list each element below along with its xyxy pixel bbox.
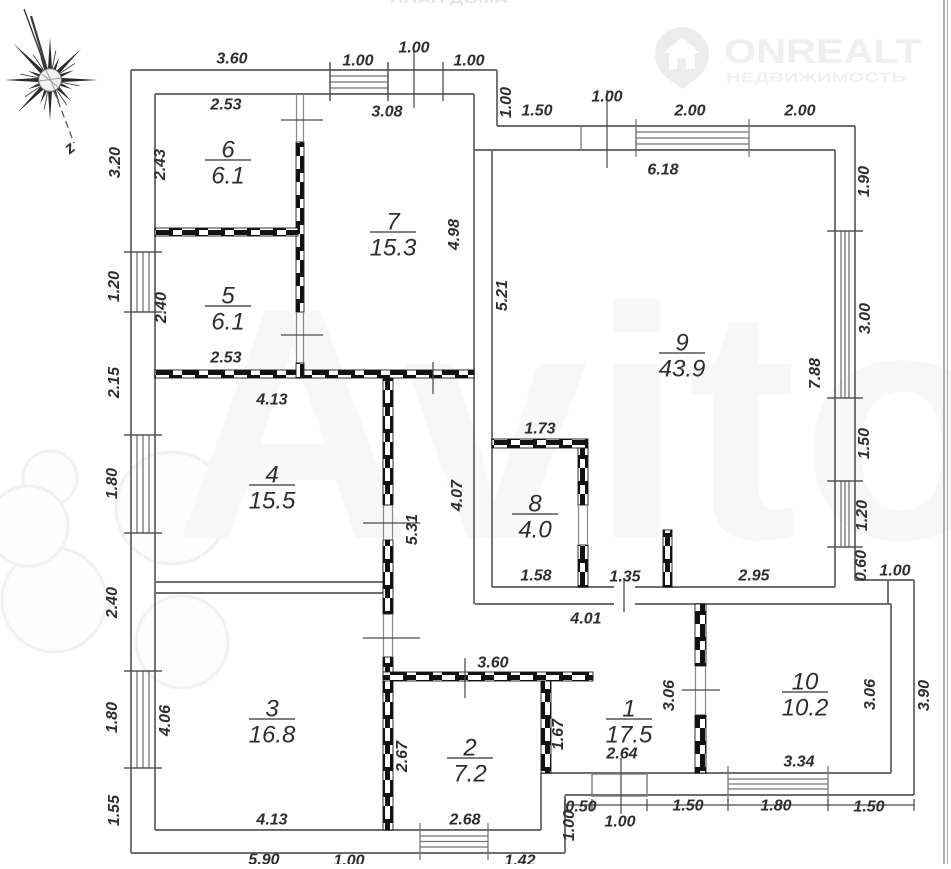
svg-text:5.21: 5.21 [494,280,511,311]
svg-text:4.0: 4.0 [518,517,552,544]
svg-text:1.20: 1.20 [106,271,123,302]
svg-text:1.50: 1.50 [672,798,703,815]
svg-text:2.53: 2.53 [209,350,241,367]
svg-text:1.00: 1.00 [498,87,515,118]
svg-text:1.55: 1.55 [106,794,123,826]
svg-text:1.58: 1.58 [520,568,551,585]
svg-text:10.2: 10.2 [782,695,829,722]
svg-text:2.40: 2.40 [153,292,170,324]
svg-text:1.50: 1.50 [853,799,884,816]
svg-text:3.60: 3.60 [477,655,508,672]
svg-text:43.9: 43.9 [659,356,706,383]
svg-text:6.1: 6.1 [211,163,244,190]
svg-text:7.2: 7.2 [453,761,486,788]
svg-text:5.90: 5.90 [248,852,279,864]
svg-text:3.08: 3.08 [371,104,402,121]
svg-text:16.8: 16.8 [249,722,296,749]
svg-text:2.43: 2.43 [152,149,169,181]
svg-text:1.80: 1.80 [104,468,121,499]
svg-text:2.53: 2.53 [209,97,241,114]
svg-text:ПЛАН ДОМА: ПЛАН ДОМА [390,0,509,6]
svg-text:1.00: 1.00 [453,53,484,70]
svg-text:6.18: 6.18 [647,162,678,179]
svg-text:3.60: 3.60 [216,51,247,68]
svg-text:3.06: 3.06 [661,680,678,711]
svg-text:1.35: 1.35 [609,569,641,586]
svg-text:1.00: 1.00 [879,563,910,580]
svg-text:4.98: 4.98 [446,219,463,251]
svg-text:3.00: 3.00 [857,303,874,334]
svg-text:4.01: 4.01 [569,611,601,628]
svg-text:1.42: 1.42 [504,853,535,864]
svg-text:1.00: 1.00 [591,89,622,106]
svg-text:4.07: 4.07 [449,479,466,512]
svg-text:1.73: 1.73 [524,421,555,438]
svg-text:1.00: 1.00 [342,53,373,70]
svg-text:3.06: 3.06 [862,679,879,710]
svg-text:3.90: 3.90 [916,680,933,711]
svg-text:2.15: 2.15 [106,366,123,399]
svg-text:15.3: 15.3 [370,235,417,262]
svg-text:15.5: 15.5 [249,488,296,515]
svg-text:2.40: 2.40 [104,587,121,619]
svg-text:0.60: 0.60 [853,550,870,581]
svg-text:1.67: 1.67 [550,718,567,750]
svg-text:1.00: 1.00 [333,853,364,864]
svg-text:2.95: 2.95 [737,568,770,585]
svg-text:5.31: 5.31 [404,514,421,545]
svg-text:1.50: 1.50 [521,103,552,120]
svg-text:1.00: 1.00 [604,814,635,831]
svg-text:6.1: 6.1 [211,309,244,336]
svg-text:4.13: 4.13 [255,392,287,409]
svg-text:2.68: 2.68 [448,812,480,829]
svg-text:2.00: 2.00 [673,103,705,120]
svg-text:1.50: 1.50 [856,428,873,459]
svg-text:2.00: 2.00 [783,103,815,120]
svg-text:4.06: 4.06 [157,705,174,737]
svg-text:1.80: 1.80 [760,798,791,815]
svg-text:ONREALT: ONREALT [724,33,921,71]
svg-text:1.90: 1.90 [856,166,873,197]
svg-text:НЕДВИЖИМОСТЬ: НЕДВИЖИМОСТЬ [726,69,906,85]
svg-text:17.5: 17.5 [606,722,653,749]
svg-text:4.13: 4.13 [255,812,287,829]
svg-text:3.20: 3.20 [107,147,124,178]
svg-text:7.88: 7.88 [807,358,824,389]
svg-text:2.67: 2.67 [394,740,411,773]
svg-text:3.34: 3.34 [783,754,814,771]
svg-text:1.80: 1.80 [104,702,121,733]
svg-text:1.00: 1.00 [398,40,429,57]
svg-text:1.20: 1.20 [854,500,871,531]
svg-text:1.00: 1.00 [561,810,578,841]
